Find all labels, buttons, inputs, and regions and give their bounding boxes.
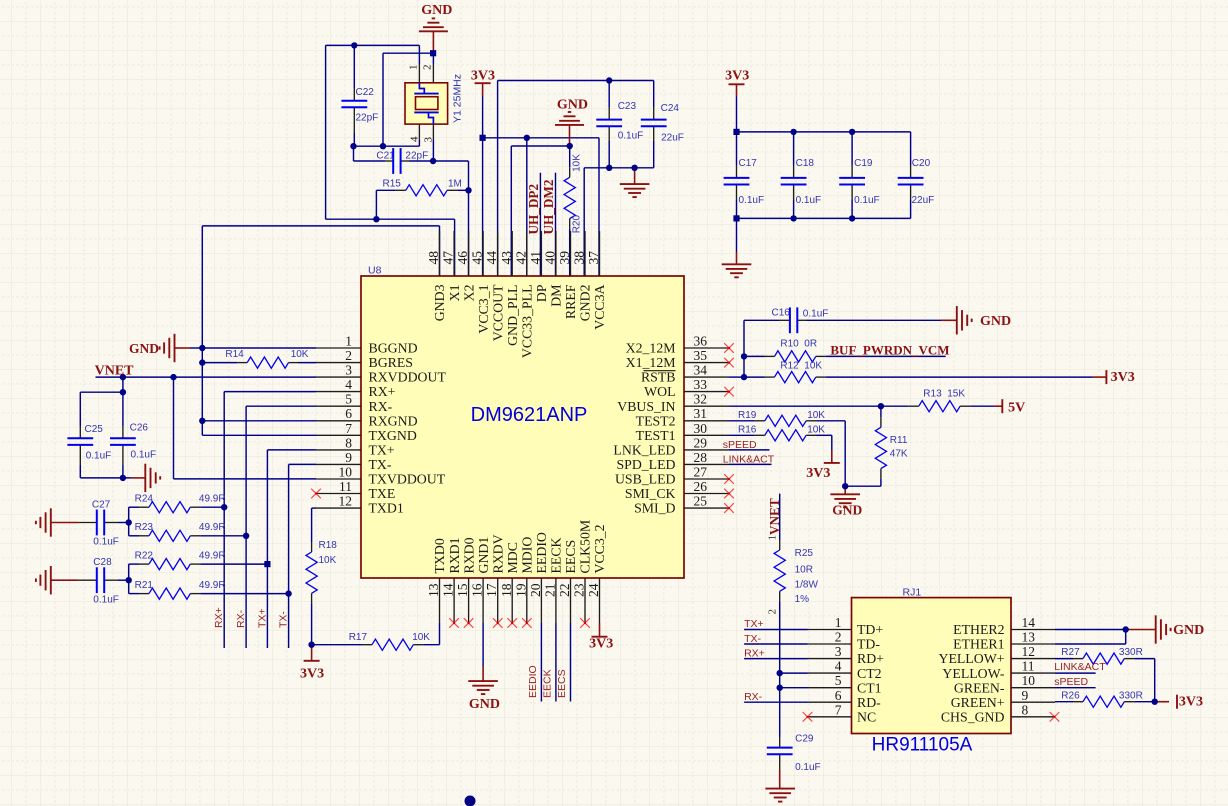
svg-text:3V3: 3V3 (1179, 695, 1203, 710)
svg-text:0.1uF: 0.1uF (86, 450, 112, 461)
svg-text:3: 3 (345, 363, 352, 378)
svg-text:49.9R: 49.9R (199, 522, 226, 533)
svg-text:C22: C22 (356, 87, 375, 98)
svg-text:R15: R15 (383, 179, 402, 190)
svg-text:TXVDDOUT: TXVDDOUT (369, 472, 446, 487)
svg-text:22pF: 22pF (356, 113, 379, 124)
svg-text:33: 33 (694, 377, 708, 392)
svg-text:DP: DP (534, 284, 549, 302)
svg-text:C18: C18 (796, 158, 815, 169)
svg-text:49.9R: 49.9R (199, 580, 226, 591)
svg-text:EEDIO: EEDIO (534, 532, 549, 573)
svg-text:DM9621ANP: DM9621ANP (471, 404, 588, 426)
svg-text:13: 13 (426, 583, 441, 597)
svg-text:C27: C27 (92, 500, 111, 511)
svg-text:34: 34 (694, 363, 708, 378)
svg-text:LINK&ACT: LINK&ACT (723, 453, 775, 465)
svg-text:3V3: 3V3 (300, 667, 324, 682)
svg-text:SMI_CK: SMI_CK (625, 486, 676, 501)
svg-text:10K: 10K (291, 349, 309, 360)
svg-text:1: 1 (835, 615, 842, 630)
svg-text:VCC3_1: VCC3_1 (476, 284, 491, 333)
svg-text:TXGND: TXGND (369, 428, 417, 443)
svg-text:3V3: 3V3 (725, 69, 749, 84)
svg-text:YELLOW-: YELLOW- (942, 666, 1004, 681)
svg-text:RX-: RX- (235, 609, 247, 628)
svg-text:EECS: EECS (563, 540, 578, 574)
svg-text:10K: 10K (807, 425, 825, 436)
svg-text:30: 30 (694, 421, 708, 436)
svg-text:3V3: 3V3 (471, 69, 495, 84)
svg-text:MDIO: MDIO (520, 537, 535, 574)
svg-text:13: 13 (1022, 630, 1036, 645)
svg-text:4: 4 (408, 136, 420, 142)
svg-text:9: 9 (345, 450, 352, 465)
svg-text:TD-: TD- (857, 637, 880, 652)
svg-text:8: 8 (1022, 702, 1029, 717)
svg-text:R23: R23 (135, 522, 154, 533)
svg-text:EECK: EECK (549, 537, 564, 573)
svg-text:19: 19 (513, 583, 528, 597)
svg-text:47K: 47K (890, 448, 908, 459)
svg-text:C21: C21 (376, 151, 395, 162)
svg-text:C17: C17 (739, 158, 758, 169)
svg-text:GND: GND (832, 503, 862, 518)
svg-text:TX+: TX+ (369, 443, 395, 458)
svg-text:R20: R20 (572, 215, 583, 234)
svg-text:C28: C28 (93, 557, 112, 568)
svg-text:SPD_LED: SPD_LED (616, 457, 675, 472)
svg-text:RREF: RREF (563, 284, 578, 319)
svg-text:1M: 1M (448, 179, 462, 190)
svg-text:16: 16 (470, 583, 485, 597)
svg-text:VNET: VNET (95, 364, 135, 379)
svg-text:C24: C24 (661, 103, 680, 114)
svg-text:25: 25 (694, 494, 708, 509)
svg-text:R13 15K: R13 15K (923, 389, 965, 400)
svg-text:R17: R17 (349, 632, 368, 643)
svg-text:U8: U8 (368, 265, 382, 277)
svg-text:GND2: GND2 (578, 284, 593, 321)
svg-text:0.1uF: 0.1uF (795, 762, 821, 773)
svg-text:USB_LED: USB_LED (615, 472, 676, 487)
svg-text:LNK_LED: LNK_LED (613, 443, 675, 458)
svg-text:EECS: EECS (556, 669, 568, 698)
svg-text:R11: R11 (890, 435, 908, 446)
svg-text:C19: C19 (854, 158, 873, 169)
svg-text:0.1uF: 0.1uF (93, 537, 119, 548)
svg-text:C23: C23 (618, 101, 637, 112)
svg-text:ETHER1: ETHER1 (953, 637, 1004, 652)
svg-text:R19: R19 (738, 410, 757, 421)
svg-text:3: 3 (423, 137, 435, 143)
svg-text:26: 26 (694, 479, 708, 494)
svg-text:RXVDDOUT: RXVDDOUT (369, 370, 447, 385)
svg-text:TXE: TXE (369, 486, 396, 501)
svg-text:EEDIO: EEDIO (527, 665, 539, 698)
svg-text:49.9R: 49.9R (199, 551, 226, 562)
svg-text:YELLOW+: YELLOW+ (938, 651, 1004, 666)
svg-text:10: 10 (1022, 673, 1036, 688)
svg-text:C16: C16 (772, 308, 791, 319)
svg-text:5V: 5V (1008, 401, 1025, 416)
svg-text:TEST2: TEST2 (636, 413, 676, 428)
svg-text:2: 2 (422, 65, 434, 71)
svg-text:36: 36 (694, 334, 708, 349)
svg-text:3V3: 3V3 (806, 466, 830, 481)
svg-text:10K: 10K (319, 555, 337, 566)
svg-text:47: 47 (441, 251, 456, 265)
svg-text:11: 11 (1022, 659, 1035, 674)
svg-text:DM: DM (549, 285, 564, 307)
svg-text:GND: GND (421, 3, 452, 18)
svg-text:UH_DM2: UH_DM2 (541, 179, 556, 234)
svg-text:1/8W: 1/8W (795, 579, 819, 590)
svg-text:10K: 10K (572, 154, 583, 172)
svg-text:32: 32 (694, 392, 708, 407)
svg-text:TXD0: TXD0 (432, 538, 447, 573)
svg-text:RSTB: RSTB (641, 370, 676, 385)
svg-text:41: 41 (528, 251, 543, 265)
svg-text:1: 1 (408, 65, 420, 71)
svg-text:BGRES: BGRES (369, 355, 413, 370)
svg-text:3V3: 3V3 (589, 637, 613, 652)
svg-text:0.1uF: 0.1uF (803, 308, 829, 319)
svg-text:23: 23 (572, 583, 587, 597)
svg-text:7: 7 (345, 421, 352, 436)
svg-text:CT2: CT2 (857, 666, 882, 681)
svg-text:22pF: 22pF (405, 151, 428, 162)
svg-text:10R: 10R (795, 565, 813, 576)
svg-text:20: 20 (528, 583, 543, 597)
svg-text:GREEN+: GREEN+ (951, 695, 1005, 710)
svg-text:9: 9 (1022, 688, 1029, 703)
svg-text:0.1uF: 0.1uF (131, 449, 157, 460)
svg-text:R26: R26 (1061, 691, 1080, 702)
svg-text:TX-: TX- (744, 633, 761, 645)
svg-text:44: 44 (484, 251, 499, 265)
svg-text:43: 43 (499, 251, 514, 265)
svg-text:GND: GND (557, 98, 588, 113)
svg-text:29: 29 (694, 435, 708, 450)
svg-text:RX-: RX- (369, 399, 393, 414)
svg-text:CHS_GND: CHS_GND (941, 709, 1005, 724)
svg-text:0.1uF: 0.1uF (93, 595, 119, 606)
svg-text:BUF_PWRDN_VCM: BUF_PWRDN_VCM (830, 343, 949, 358)
svg-text:R18: R18 (319, 540, 338, 551)
svg-text:UH_DP2: UH_DP2 (526, 184, 541, 235)
svg-text:RX+: RX+ (369, 384, 396, 399)
svg-text:X1_12M: X1_12M (626, 355, 676, 370)
svg-text:6: 6 (345, 406, 352, 421)
svg-text:R24: R24 (135, 494, 154, 505)
svg-text:TX+: TX+ (744, 618, 764, 630)
svg-text:4: 4 (835, 659, 842, 674)
svg-text:TX+: TX+ (256, 608, 268, 628)
svg-text:R22: R22 (135, 551, 154, 562)
svg-text:330R: 330R (1119, 691, 1143, 702)
svg-text:TEST1: TEST1 (636, 428, 676, 443)
svg-text:42: 42 (513, 251, 528, 265)
svg-text:21: 21 (542, 584, 557, 598)
svg-text:TX-: TX- (369, 457, 392, 472)
svg-text:R27: R27 (1061, 647, 1080, 658)
svg-text:RX-: RX- (744, 691, 763, 703)
svg-text:TXD1: TXD1 (369, 501, 404, 516)
svg-text:C29: C29 (795, 733, 814, 744)
svg-text:11: 11 (339, 479, 352, 494)
svg-text:14: 14 (441, 583, 456, 597)
svg-text:22uF: 22uF (661, 132, 684, 143)
svg-text:12: 12 (1022, 644, 1036, 659)
svg-text:HR911105A: HR911105A (872, 735, 973, 756)
svg-text:GREEN-: GREEN- (954, 680, 1005, 695)
svg-text:NC: NC (857, 709, 876, 724)
svg-text:8: 8 (345, 435, 352, 450)
svg-text:RXD1: RXD1 (447, 537, 462, 573)
svg-text:1%: 1% (795, 594, 810, 605)
svg-text:RXDV: RXDV (490, 534, 505, 573)
svg-text:35: 35 (694, 348, 708, 363)
svg-text:45: 45 (470, 251, 485, 265)
svg-text:38: 38 (572, 251, 587, 265)
svg-text:sPEED: sPEED (723, 439, 757, 451)
svg-text:RXGND: RXGND (369, 413, 418, 428)
svg-text:39: 39 (557, 251, 572, 265)
svg-text:VBUS_IN: VBUS_IN (617, 399, 675, 414)
svg-text:17: 17 (484, 583, 499, 597)
svg-text:49.9R: 49.9R (199, 494, 226, 505)
svg-text:VNET: VNET (767, 498, 782, 535)
svg-text:ETHER2: ETHER2 (953, 622, 1004, 637)
svg-text:12: 12 (339, 494, 353, 509)
svg-text:15: 15 (455, 583, 470, 597)
svg-text:37: 37 (586, 251, 601, 265)
svg-text:R21: R21 (135, 580, 154, 591)
svg-text:GND: GND (129, 341, 159, 356)
svg-text:C26: C26 (130, 423, 149, 434)
svg-text:RD+: RD+ (857, 651, 884, 666)
svg-text:SMI_D: SMI_D (634, 501, 675, 516)
svg-text:R25: R25 (795, 548, 814, 559)
svg-text:BGGND: BGGND (369, 341, 418, 356)
svg-text:10: 10 (339, 465, 353, 480)
svg-text:0.1uF: 0.1uF (739, 195, 765, 206)
svg-text:CLK50M: CLK50M (578, 520, 593, 574)
svg-text:EECK: EECK (541, 669, 553, 698)
svg-text:WOL: WOL (644, 384, 675, 399)
svg-text:VCC3A: VCC3A (592, 284, 607, 329)
svg-text:3V3: 3V3 (1111, 370, 1135, 385)
svg-text:GND: GND (469, 697, 500, 712)
svg-text:sPEED: sPEED (1054, 676, 1088, 688)
svg-text:MDC: MDC (505, 542, 520, 573)
svg-text:VCC3_2: VCC3_2 (592, 524, 607, 573)
svg-text:14: 14 (1022, 615, 1036, 630)
svg-text:0.1uF: 0.1uF (854, 195, 880, 206)
svg-text:TX-: TX- (278, 611, 290, 628)
svg-text:RX+: RX+ (213, 607, 225, 628)
svg-text:RXD0: RXD0 (461, 537, 476, 573)
svg-text:0.1uF: 0.1uF (618, 131, 644, 142)
svg-text:GND_PLL: GND_PLL (505, 285, 520, 346)
svg-text:40: 40 (542, 251, 557, 265)
svg-text:31: 31 (694, 406, 708, 421)
svg-text:R12 10K: R12 10K (780, 360, 822, 371)
svg-text:LINK&ACT: LINK&ACT (1054, 661, 1106, 673)
svg-text:X2_12M: X2_12M (626, 341, 676, 356)
svg-text:RX+: RX+ (744, 647, 765, 659)
svg-text:5: 5 (835, 673, 842, 688)
svg-text:22: 22 (557, 584, 572, 598)
svg-text:2: 2 (835, 630, 842, 645)
svg-text:RJ1: RJ1 (903, 587, 922, 599)
svg-text:GND: GND (1173, 623, 1204, 638)
svg-text:0.1uF: 0.1uF (796, 195, 822, 206)
svg-text:27: 27 (694, 465, 708, 480)
svg-text:46: 46 (455, 251, 470, 265)
svg-text:28: 28 (694, 450, 708, 465)
svg-text:22uF: 22uF (912, 195, 935, 206)
svg-text:24: 24 (586, 583, 601, 597)
svg-text:VCC33_PLL: VCC33_PLL (520, 285, 535, 359)
svg-text:10K: 10K (807, 410, 825, 421)
svg-text:2: 2 (767, 609, 779, 615)
svg-text:X2: X2 (461, 284, 476, 301)
svg-text:18: 18 (499, 583, 514, 597)
svg-text:6: 6 (835, 688, 842, 703)
svg-text:48: 48 (426, 251, 441, 265)
svg-text:CT1: CT1 (857, 680, 882, 695)
svg-text:5: 5 (345, 392, 352, 407)
svg-text:C25: C25 (85, 424, 104, 435)
svg-text:GND: GND (980, 314, 1011, 329)
svg-text:VCCOUT: VCCOUT (490, 284, 505, 341)
svg-text:RD-: RD- (857, 695, 881, 710)
svg-text:R16: R16 (738, 425, 757, 436)
svg-text:330R: 330R (1119, 647, 1143, 658)
svg-text:2: 2 (345, 348, 352, 363)
svg-text:TD+: TD+ (857, 622, 883, 637)
svg-text:3: 3 (835, 644, 842, 659)
svg-text:C20: C20 (912, 158, 931, 169)
svg-text:10K: 10K (412, 632, 430, 643)
svg-text:1: 1 (345, 334, 352, 349)
svg-text:GND3: GND3 (432, 284, 447, 321)
svg-text:1: 1 (767, 535, 779, 541)
svg-text:7: 7 (835, 702, 842, 717)
svg-text:R10 0R: R10 0R (780, 339, 817, 350)
svg-text:X1: X1 (447, 284, 462, 301)
svg-text:R14: R14 (225, 349, 244, 360)
svg-text:4: 4 (345, 377, 352, 392)
svg-text:GND1: GND1 (476, 537, 491, 574)
svg-text:Y1 25MHz: Y1 25MHz (452, 74, 464, 123)
